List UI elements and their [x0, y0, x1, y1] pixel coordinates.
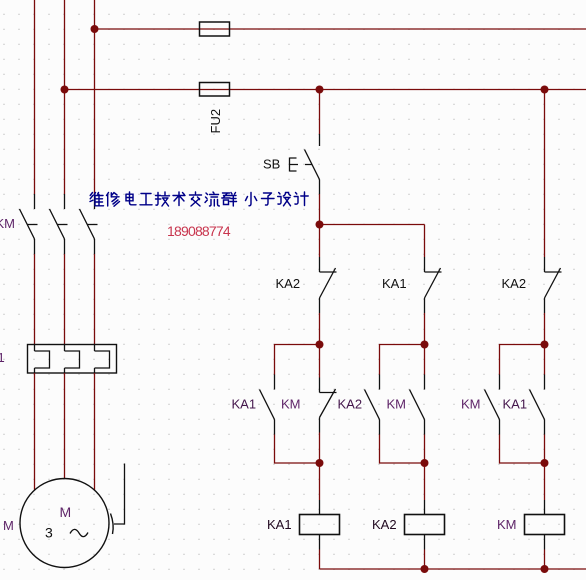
wire bottom bus: [320, 568, 586, 570]
junction node SB tap / row2: [316, 86, 324, 94]
wire rung2 NC to mid node: [424, 313, 426, 345]
svg-text:FU2: FU2: [208, 109, 223, 134]
fuse FU2: [200, 83, 230, 97]
motor M body circle: [20, 479, 109, 568]
wire L2 phase vertical: [64, 0, 66, 194]
coil KA2: [405, 500, 445, 550]
coil KM: [525, 500, 565, 550]
wire feeder row 2: [65, 89, 586, 91]
wire top feeder row 1: [95, 28, 586, 30]
svg-text:189088774: 189088774: [167, 223, 231, 239]
svg-text:M: M: [60, 504, 72, 520]
wire SB to junction: [319, 194, 321, 225]
svg-text:KA2: KA2: [338, 397, 363, 412]
pushbutton SB: [290, 134, 320, 194]
contact KA2 normally-open (rung2 left branch): [365, 375, 380, 435]
wire phase 3 below KM: [94, 254, 96, 345]
wire phase 3 to motor: [94, 373, 96, 490]
junction node bus / KA2: [421, 565, 429, 573]
wire rung3 to coil KM: [544, 463, 546, 500]
svg-text:KM: KM: [281, 397, 301, 412]
FR1 heater element phase 1: [35, 345, 50, 374]
svg-text:KM: KM: [461, 397, 481, 412]
glyph 设: [278, 193, 291, 206]
glyph 交: [190, 192, 202, 206]
wire rung2 col to NC contact: [424, 225, 426, 258]
wire rung3 branch top: [500, 345, 545, 375]
wire rung1 left branch bottom: [275, 435, 320, 464]
glyph 计: [294, 192, 308, 206]
motor tilde symbol: [70, 529, 88, 536]
wire phase 1 below KM: [34, 254, 36, 345]
svg-text:KA1: KA1: [232, 397, 257, 412]
wire junction to rung2 top: [320, 224, 425, 226]
junction node bus / KM: [541, 565, 549, 573]
contactor KM main contact phase 1: [20, 194, 38, 254]
glyph 技: [156, 192, 170, 206]
glyph 子: [262, 193, 275, 205]
junction node SB output: [316, 221, 324, 229]
coil KA1: [300, 500, 340, 550]
contact KM normally-open (rung2 right branch): [410, 375, 425, 435]
wire rung1 branch top: [275, 345, 320, 375]
wire rung3 NC to mid node: [544, 313, 546, 345]
contactor KM main contact phase 3: [80, 194, 98, 254]
wire L3 phase vertical: [94, 0, 96, 194]
wire rung1 col to NC contact: [319, 225, 321, 258]
svg-text:KM: KM: [387, 397, 407, 412]
svg-text:KM: KM: [497, 517, 517, 532]
wire rung3 right col mid: [544, 345, 546, 375]
FR1 heater element phase 2: [65, 345, 80, 374]
svg-text:KA2: KA2: [502, 276, 527, 291]
glyph 维: [90, 193, 104, 206]
wire rung3 col from row2: [544, 90, 546, 258]
text title: 维修电工技术交流群 小子设计 (hand-drawn glyph strokes): [90, 192, 308, 206]
svg-text:M: M: [3, 518, 14, 533]
thermal overload relay FR1 body: [28, 345, 117, 374]
glyph 术: [173, 192, 185, 206]
wire rung1 right col bottom: [319, 433, 321, 464]
glyph 工: [140, 194, 152, 205]
wire rung1 NC to mid node: [319, 313, 321, 345]
wire SB column upper: [319, 90, 321, 135]
motor brush arc: [111, 514, 114, 535]
wire phase 1 to motor: [34, 373, 36, 490]
contact KA2 normally-closed (rung3): [545, 257, 562, 313]
contact KM normally-open (rung3 left branch): [485, 375, 500, 435]
contact KA1 normally-closed (rung2): [425, 257, 442, 313]
junction node rung3 bottom: [541, 459, 549, 467]
wire rung1 right col mid: [319, 345, 321, 378]
junction node right rail / row2: [541, 86, 549, 94]
svg-text:KA1: KA1: [382, 276, 407, 291]
contact KA2 normally-closed (rung1): [320, 257, 337, 313]
wire coil KM to bus: [544, 550, 546, 570]
svg-text:KM: KM: [0, 216, 15, 231]
svg-text:1: 1: [0, 350, 5, 365]
FR1 heater element phase 3: [95, 345, 110, 374]
wire rung1 to coil KA1: [319, 463, 321, 500]
wire rung2 right col bottom: [424, 435, 426, 464]
svg-text:KA2: KA2: [276, 276, 301, 291]
wire coil KA2 to bus: [424, 550, 426, 570]
wire phase 2 below KM: [64, 254, 66, 345]
glyph 修: [107, 193, 120, 207]
junction node rung1 bottom: [316, 459, 324, 467]
junction node rung1 mid: [316, 341, 324, 349]
svg-text:SB: SB: [263, 157, 280, 172]
junction node rung2 bottom: [421, 459, 429, 467]
junction node at L3 / row1: [91, 25, 99, 33]
wire rung3 left branch bottom: [500, 435, 545, 464]
contact KM normally-closed (rung1 right branch): [320, 378, 337, 433]
contact KA1 normally-open (rung3 right branch): [530, 375, 545, 435]
svg-text:KA1: KA1: [267, 517, 292, 532]
wire rung2 branch top: [380, 345, 425, 375]
wire rung2 left branch bottom: [380, 435, 425, 464]
junction node at L2 / row2: [61, 86, 69, 94]
glyph 电: [126, 192, 136, 205]
junction node rung2 mid: [421, 341, 429, 349]
svg-text:KA1: KA1: [503, 397, 528, 412]
motor brush lead wire: [114, 464, 125, 525]
contactor KM main contact phase 2: [50, 194, 68, 254]
svg-text:3: 3: [45, 525, 53, 541]
svg-text:KA2: KA2: [372, 517, 397, 532]
wire rung2 right col mid: [424, 345, 426, 375]
contact KA1 normally-open (rung1 left branch): [260, 375, 275, 435]
wire L1 phase vertical: [34, 0, 36, 194]
glyph 小: [246, 193, 257, 206]
fuse FU1 (top row): [200, 22, 230, 36]
wire rung3 right col bottom: [544, 435, 546, 464]
glyph 流: [205, 192, 219, 206]
glyph 群: [222, 193, 237, 207]
junction node rung3 mid: [541, 341, 549, 349]
wire rung2 to coil KA2: [424, 463, 426, 500]
wire phase 2 to motor: [64, 373, 66, 479]
wire coil KA1 to bus: [319, 550, 321, 570]
